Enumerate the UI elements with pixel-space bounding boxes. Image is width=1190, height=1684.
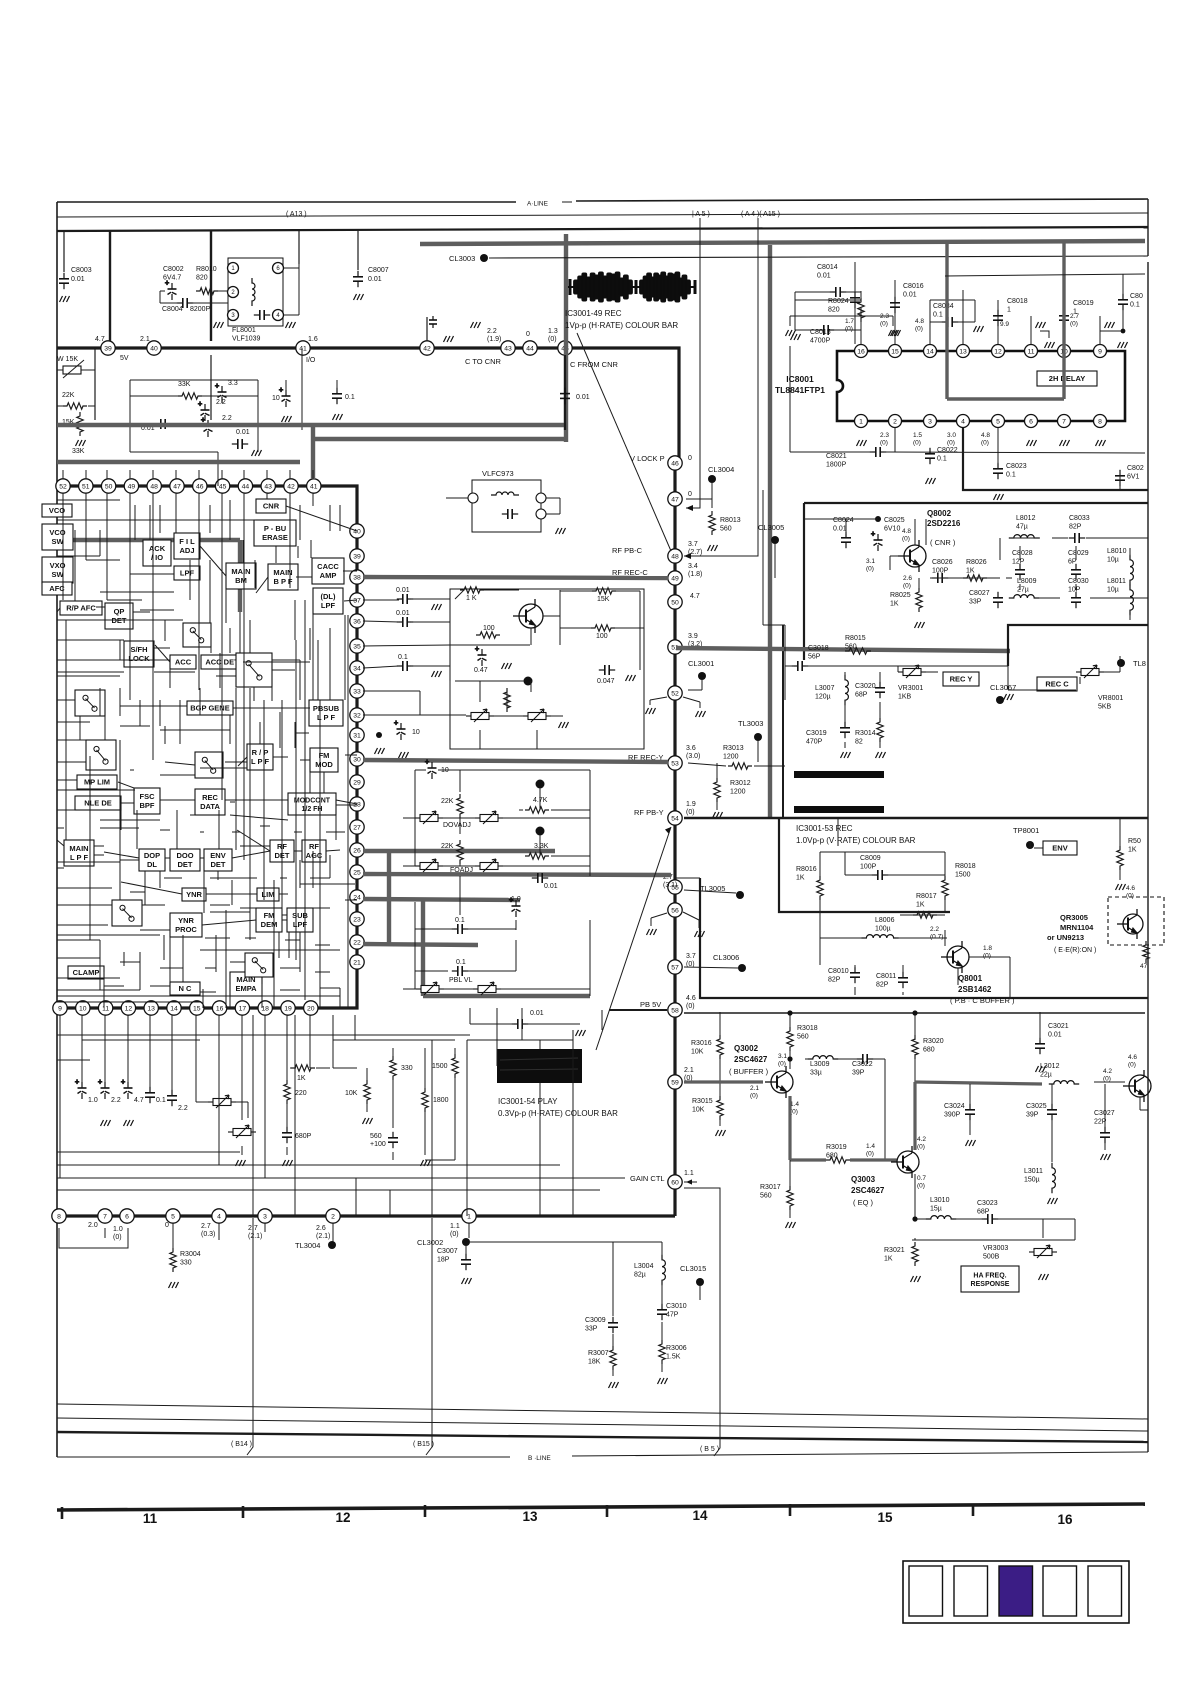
node IC8001 pin 2 (889, 415, 902, 428)
svg-text:C8028: C8028 (1012, 550, 1033, 557)
wire C8004 to FL8001 (192, 302, 228, 304)
svg-text:PBSUB: PBSUB (313, 704, 340, 713)
wire l3004 mesh (661, 1242, 663, 1255)
block MODCONT 1/2 FH (288, 793, 336, 815)
svg-text:52: 52 (59, 483, 67, 490)
svg-text:BGP GENE: BGP GENE (190, 704, 229, 713)
ground C3024 (966, 1140, 976, 1146)
svg-text:1.0: 1.0 (88, 1097, 98, 1104)
svg-text:3.7: 3.7 (686, 953, 696, 960)
block FM MOD (310, 748, 338, 772)
resistor R8016 (817, 876, 823, 900)
node pin 19 (281, 1001, 295, 1015)
ground bl3 (236, 1160, 246, 1166)
resistor 3.3K (525, 853, 549, 859)
capacitor C3025 (1047, 1104, 1057, 1120)
wire pin4 thick (963, 428, 1148, 490)
svg-text:5KB: 5KB (1098, 704, 1112, 711)
capacitor stub 855 (850, 292, 860, 308)
svg-text:C3025: C3025 (1026, 1103, 1047, 1110)
svg-text:(0): (0) (903, 583, 911, 590)
wire heavy Q3002 emitter (788, 1096, 791, 1160)
svg-text:RF: RF (309, 842, 319, 851)
ground pin6 (1027, 440, 1037, 446)
node pin 16 (212, 1001, 226, 1015)
svg-text:33P: 33P (969, 599, 982, 606)
svg-text:47P: 47P (666, 1312, 679, 1319)
resistor R8017 (913, 912, 937, 918)
wire heavy bus y439 (313, 437, 566, 441)
resistor R3020 (912, 1035, 918, 1059)
wire row2 to chain1 (313, 486, 357, 531)
svg-text:0: 0 (688, 491, 692, 498)
node pin 48 (147, 479, 161, 493)
svg-text:50: 50 (105, 483, 113, 490)
svg-text:26: 26 (353, 847, 361, 854)
node FL8001 pin 1 (228, 263, 239, 274)
svg-text:3.1: 3.1 (778, 1053, 787, 1060)
capacitor C8011 (898, 972, 908, 988)
wire texture drops (252, 1015, 254, 1216)
block FIL ADJ (174, 533, 200, 559)
resistor mid v (504, 688, 510, 712)
wire 55 stub (684, 890, 736, 893)
wire R8016 connect (819, 899, 821, 938)
svg-text:1: 1 (1007, 307, 1011, 314)
resistor R3006 (659, 1340, 665, 1364)
block CLAMP (68, 966, 104, 979)
wire 52 stubs (650, 697, 667, 700)
block MAIN LPF (64, 840, 94, 866)
wire pointer diagonal to pin54 (596, 827, 671, 1050)
svg-text:(0): (0) (915, 326, 923, 333)
svg-text:(1.8): (1.8) (688, 571, 702, 578)
wire chain1 vertical pins 40-21 (355, 531, 358, 962)
variable resistor VR3001 (898, 665, 926, 678)
svg-text:AMP: AMP (320, 571, 337, 580)
svg-text:1.3: 1.3 (548, 328, 558, 335)
svg-text:2.0: 2.0 (88, 1222, 98, 1229)
variable resistor VRb (523, 709, 551, 722)
block SUB LPF (287, 908, 313, 932)
svg-text:4: 4 (961, 418, 965, 425)
resistor 1500 (452, 1054, 458, 1078)
capacitor C8023 (993, 463, 1003, 479)
svg-text:8: 8 (57, 1213, 61, 1220)
ground R3017 (786, 1222, 796, 1228)
wire row4 feeds (218, 1223, 220, 1240)
ground C8023 (994, 494, 1004, 500)
component QR3005 dashed box (1108, 897, 1164, 945)
wire heavy delay box left (945, 242, 948, 399)
svg-text:0.047: 0.047 (597, 678, 615, 685)
svg-text:330: 330 (180, 1260, 192, 1267)
block CNR (256, 499, 286, 513)
ground R3021 (911, 1276, 921, 1282)
svg-text:PROC: PROC (175, 925, 197, 934)
ground C8018 (1036, 322, 1046, 328)
wire pin10 hook (1040, 331, 1049, 338)
svg-text:QP: QP (114, 607, 125, 616)
svg-text:TL3004: TL3004 (295, 1241, 320, 1250)
ground C8022 (926, 478, 936, 484)
svg-text:39P: 39P (852, 1070, 865, 1077)
svg-text:+: + (165, 280, 169, 287)
block switch S5 (236, 653, 272, 687)
wire q8001 thick box (779, 818, 950, 912)
ground elco 10 (282, 416, 292, 422)
node pin 46 (668, 456, 682, 470)
wire heavy bus pin24 (363, 899, 520, 900)
svg-text:40: 40 (150, 345, 158, 352)
variable resistor bl1 (208, 1095, 236, 1108)
svg-text:19: 19 (284, 1005, 292, 1012)
wire c8014 loop (795, 291, 832, 293)
wire recy mesh (784, 625, 786, 666)
capacitor 1.0 (509, 897, 521, 917)
svg-text:4.7: 4.7 (690, 593, 700, 600)
svg-text:100: 100 (483, 625, 495, 632)
svg-text:L3011: L3011 (1024, 1168, 1043, 1175)
svg-text:(DL): (DL) (321, 592, 336, 601)
resistor 33K (178, 393, 202, 399)
node pin 52 (56, 479, 70, 493)
svg-text:14: 14 (926, 348, 934, 355)
svg-text:150µ: 150µ (1024, 1177, 1040, 1184)
node pin 37 (350, 593, 364, 607)
svg-text:DET: DET (112, 616, 127, 625)
wire FL8001 pin6 stub (284, 267, 299, 269)
node pin 51 (668, 640, 682, 654)
svg-text:11: 11 (102, 1005, 109, 1012)
svg-text:33K: 33K (72, 448, 85, 455)
capacitor 0.01 mid (232, 439, 248, 449)
svg-text:R3004: R3004 (180, 1251, 201, 1258)
svg-text:S/FH: S/FH (130, 645, 147, 654)
capacitor C8027 (993, 592, 1003, 608)
svg-text:51: 51 (82, 483, 90, 490)
svg-text:15: 15 (877, 1510, 893, 1525)
svg-text:7: 7 (103, 1213, 107, 1220)
svg-text:(0): (0) (880, 321, 888, 328)
svg-text:0.7: 0.7 (917, 1175, 926, 1182)
ground bl2 (124, 1120, 134, 1126)
ground pin1 (857, 440, 867, 446)
node pin 2 (326, 1209, 340, 1223)
block FM DEM (256, 908, 282, 932)
ground near 52 left (646, 708, 656, 714)
svg-text:C8034: C8034 (933, 303, 954, 310)
svg-text:(0): (0) (902, 536, 910, 543)
svg-text:C3019: C3019 (806, 730, 827, 737)
node pin 40 (350, 524, 364, 538)
wire fan row2 (62, 493, 64, 520)
svg-text:C3009: C3009 (585, 1317, 606, 1324)
capacitor C8029 (1071, 564, 1081, 580)
transistor QR3005 (1117, 909, 1143, 939)
wire pin58 stub left (609, 1009, 667, 1011)
node pin 30 (350, 752, 364, 766)
node pin 24 (350, 890, 364, 904)
node page index current (filled) (999, 1566, 1033, 1616)
wire q8001 mesh (844, 852, 846, 875)
ground 1800 (421, 1160, 431, 1166)
svg-text:100P: 100P (860, 864, 877, 871)
svg-text:5: 5 (171, 1213, 175, 1220)
svg-text:0.01: 0.01 (903, 292, 917, 299)
svg-text:82P: 82P (876, 982, 889, 989)
svg-text:TL8841FTP1: TL8841FTP1 (775, 385, 825, 395)
wire B5 drop (684, 1188, 720, 1456)
svg-text:15K: 15K (597, 596, 610, 603)
svg-text:17: 17 (239, 1005, 247, 1012)
block LIM (257, 888, 279, 901)
ground R3007 (609, 1382, 619, 1388)
svg-text:47: 47 (1140, 963, 1148, 970)
wire c8034 (930, 321, 944, 323)
node page index strip (903, 1561, 1129, 1623)
wire B-LINE right (572, 1452, 1148, 1456)
svg-text:560: 560 (845, 644, 857, 651)
wire cnr mesh (845, 530, 847, 534)
svg-text:3.6: 3.6 (686, 745, 696, 752)
capacitor 0.01 bottom (512, 1019, 528, 1029)
block S/FH LOCK (124, 641, 154, 667)
svg-text:R8026: R8026 (966, 559, 987, 566)
node pin 9 (53, 1001, 67, 1015)
ground C80 (1118, 342, 1128, 348)
wire row3 pin drops (59, 1015, 61, 1178)
resistor 220 bl (284, 1080, 290, 1104)
block switch S7 (112, 900, 142, 926)
svg-text:DATA: DATA (200, 802, 220, 811)
capacitor 10 dov (425, 759, 437, 779)
node pin 56 (668, 903, 682, 917)
node IC8001 pin 6 (1025, 415, 1038, 428)
node pin 45 (558, 341, 572, 355)
svg-text:or UN9213: or UN9213 (1047, 933, 1084, 942)
svg-text:R8015: R8015 (845, 635, 866, 642)
block RF DET (270, 840, 294, 862)
svg-text:500B: 500B (983, 1254, 1000, 1261)
node pin 39 (350, 549, 364, 563)
capacitor C3027 (1100, 1127, 1110, 1143)
svg-text:0: 0 (165, 1222, 169, 1229)
capacitor C3023 (982, 1214, 998, 1224)
component black bar 1 (794, 771, 884, 778)
svg-text:48: 48 (671, 553, 679, 560)
svg-text:15: 15 (193, 1005, 201, 1012)
svg-text:+: + (871, 531, 875, 538)
svg-text:R8010: R8010 (196, 266, 217, 273)
svg-text:9.9: 9.9 (1000, 321, 1009, 328)
wire A-LINE right segment (576, 199, 1148, 201)
block MAIN EMPA (230, 972, 262, 996)
wire pin34 line (363, 666, 399, 668)
node pin 18 (258, 1001, 272, 1015)
node pin 42 (420, 341, 434, 355)
svg-text:R / P: R / P (252, 748, 269, 757)
node TL8xxx (1117, 659, 1125, 667)
wire heavy delay box right (1062, 242, 1065, 399)
svg-text:1: 1 (859, 418, 863, 425)
node pin 47 (668, 492, 682, 506)
component colour-bar waveform blob (568, 272, 695, 302)
wire heavy bus pin26 (363, 849, 555, 853)
block NC (170, 982, 200, 995)
capacitor C8004 (177, 298, 193, 308)
ground R8013 (708, 545, 718, 551)
svg-text:54: 54 (671, 815, 679, 822)
svg-text:12: 12 (994, 348, 1002, 355)
node j C8025 (875, 516, 881, 522)
svg-text:L3004: L3004 (634, 1263, 654, 1270)
resistor 330 bl2 (390, 1056, 396, 1080)
wire gain ctl arrow (684, 1181, 697, 1183)
svg-text:1.0Vp-p (V·RATE) COLOUR BAR: 1.0Vp-p (V·RATE) COLOUR BAR (796, 836, 916, 845)
svg-text:RESPONSE: RESPONSE (971, 1281, 1010, 1288)
node IC8001 pin 1 (855, 415, 868, 428)
svg-text:22K: 22K (441, 798, 454, 805)
node foa junction (536, 827, 545, 836)
svg-text:QR3005: QR3005 (1060, 913, 1088, 922)
node pin 55 (668, 880, 682, 894)
node pin 52 (668, 686, 682, 700)
wire pin9 hook (1100, 331, 1123, 345)
capacitor C8025 (871, 531, 883, 551)
svg-text:(0): (0) (686, 809, 695, 816)
wire heavy bus v423 (421, 900, 425, 996)
wire heavy bus RF REC-Y (363, 760, 668, 762)
resistor 33K vert (77, 412, 83, 436)
wire R3015 connect (719, 1119, 721, 1126)
svg-text:4.7: 4.7 (134, 1097, 144, 1104)
svg-text:EMPA: EMPA (235, 984, 257, 993)
svg-text:0.1: 0.1 (398, 654, 408, 661)
ground R3006 (658, 1378, 668, 1384)
node pin 41 (307, 479, 321, 493)
node FL8001 pin 4 (273, 310, 284, 321)
svg-text:45: 45 (219, 483, 227, 490)
wire pin32 line (363, 714, 466, 716)
svg-text:(0): (0) (917, 1144, 925, 1151)
svg-text:11: 11 (1027, 348, 1034, 355)
svg-text:CL3004: CL3004 (708, 465, 734, 474)
svg-text:16: 16 (857, 348, 865, 355)
svg-text:R3021: R3021 (884, 1247, 905, 1254)
svg-text:1.0: 1.0 (113, 1226, 123, 1233)
svg-text:YNR: YNR (178, 916, 194, 925)
inductor FL8001 coil (252, 278, 255, 306)
svg-text:2.2: 2.2 (111, 1097, 121, 1104)
ground C3019 (841, 752, 851, 758)
node dov junction (536, 780, 545, 789)
svg-text:( E·E(R):ON ): ( E·E(R):ON ) (1054, 947, 1096, 954)
ground near pin42 (444, 336, 454, 342)
wire IC3001 bus row4 (57, 1214, 675, 1217)
wire row1 to chain2 (565, 348, 679, 463)
svg-text:C3021: C3021 (1048, 1023, 1069, 1030)
svg-text:(0): (0) (686, 1003, 695, 1010)
svg-text:| A 5 ): | A 5 ) (692, 211, 710, 218)
wire A-LINE left segment (57, 201, 516, 203)
wire ruler tick (424, 1505, 427, 1517)
node pin 53 (668, 756, 682, 770)
wire c8021 (790, 451, 872, 453)
capacitor 2.2c bl (167, 1090, 177, 1106)
wire mesh left (57, 519, 256, 521)
svg-text:2SD2216: 2SD2216 (927, 519, 961, 528)
svg-text:C8007: C8007 (368, 267, 389, 274)
svg-text:0.1: 0.1 (345, 394, 355, 401)
svg-text:25: 25 (353, 869, 361, 876)
ground b (432, 671, 442, 677)
capacitor C3020 (875, 682, 885, 698)
resistor 4.7K (525, 807, 549, 813)
svg-text:+: + (475, 646, 479, 653)
svg-text:0.1: 0.1 (156, 1097, 166, 1104)
svg-text:3.9: 3.9 (688, 633, 698, 640)
variable resistor FOADJ b (475, 859, 503, 872)
resistor R50xx (1117, 846, 1123, 870)
node pin 51 (79, 479, 93, 493)
wire heavy delay box bottom (947, 397, 1064, 400)
resistor 1K bl (291, 1065, 315, 1071)
svg-text:L3012: L3012 (1040, 1063, 1060, 1070)
svg-text:L3009: L3009 (810, 1061, 830, 1068)
resistor 22K dov (457, 794, 463, 818)
node page index square (1043, 1566, 1077, 1616)
resistor qr emitter (1143, 941, 1149, 963)
capacitor C3009 (608, 1317, 618, 1333)
svg-text:Q8001: Q8001 (958, 974, 983, 983)
svg-text:43: 43 (264, 483, 272, 490)
wire long lines above row4 (57, 1177, 625, 1179)
svg-text:CLAMP: CLAMP (73, 968, 100, 977)
svg-text:VR8001: VR8001 (1098, 695, 1123, 702)
ground VLFC (556, 528, 566, 534)
svg-text:+: + (394, 720, 398, 727)
node pin 1 (462, 1209, 476, 1223)
capacitor C802x (1115, 470, 1125, 486)
node pin 29 (350, 775, 364, 789)
svg-text:2.6: 2.6 (903, 575, 912, 582)
wire ENV stub (1034, 847, 1043, 849)
svg-text:C8029: C8029 (1068, 550, 1089, 557)
svg-text:(0): (0) (450, 1231, 459, 1238)
svg-text:1.9: 1.9 (686, 801, 696, 808)
svg-text:470P: 470P (806, 739, 823, 746)
variable resistor bl2 (228, 1125, 256, 1138)
svg-text:C8010: C8010 (828, 968, 849, 975)
svg-text:CL3067: CL3067 (990, 683, 1016, 692)
svg-text:VR3001: VR3001 (898, 685, 923, 692)
transistor TR right (1123, 1070, 1151, 1102)
svg-text:+: + (425, 759, 429, 766)
block switch S3 (86, 740, 116, 770)
svg-text:34: 34 (353, 665, 361, 672)
svg-text:14: 14 (170, 1005, 178, 1012)
svg-text:CACC: CACC (317, 562, 339, 571)
resistor R8013 (709, 511, 715, 535)
svg-text:21: 21 (353, 959, 361, 966)
svg-text:390P: 390P (944, 1112, 961, 1119)
block VXO SW (42, 557, 73, 583)
block ENV DET (204, 849, 232, 871)
ground R3014 (876, 752, 886, 758)
wire left border (56, 202, 58, 1457)
node pin 32 (350, 708, 364, 722)
